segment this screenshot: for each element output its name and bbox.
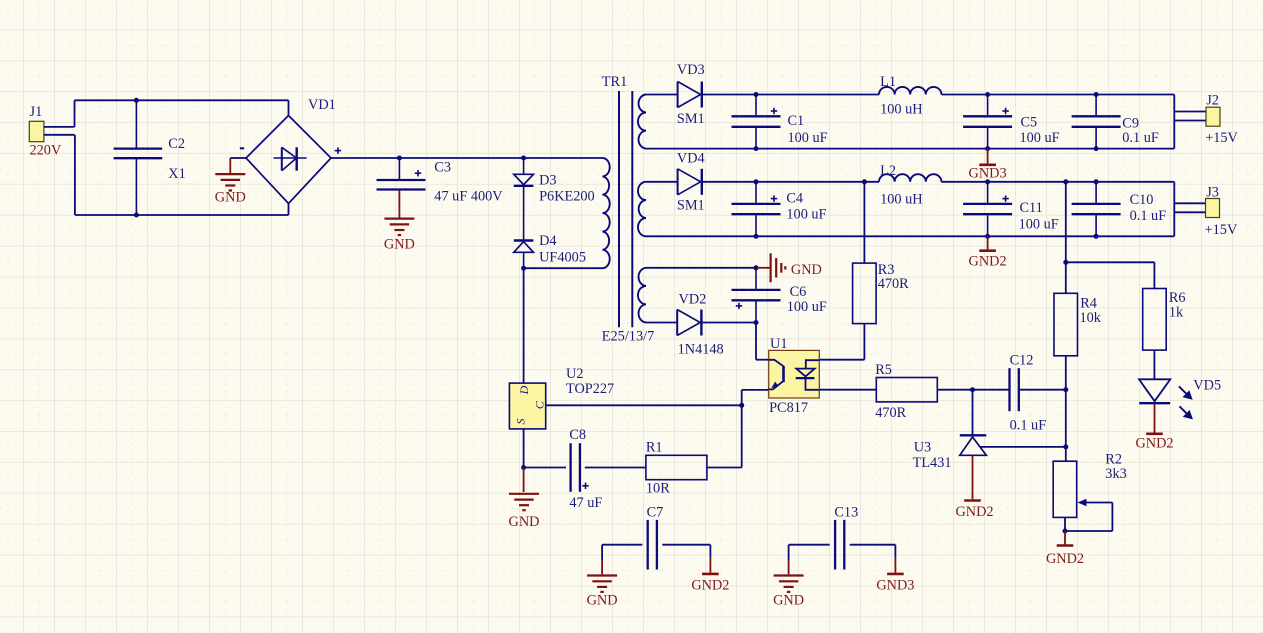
- svg-text:C10: C10: [1130, 192, 1154, 208]
- svg-text:VD4: VD4: [677, 150, 705, 166]
- svg-text:C6: C6: [790, 284, 807, 300]
- svg-text:220V: 220V: [30, 142, 62, 158]
- svg-text:C13: C13: [834, 505, 858, 521]
- svg-text:470R: 470R: [875, 405, 906, 421]
- svg-text:X1: X1: [168, 166, 185, 182]
- svg-text:GND2: GND2: [955, 504, 993, 520]
- svg-text:U2: U2: [566, 366, 583, 382]
- svg-text:J2: J2: [1206, 93, 1219, 109]
- svg-text:PC817: PC817: [769, 400, 808, 416]
- svg-text:100 uF: 100 uF: [788, 130, 828, 146]
- svg-text:C4: C4: [786, 190, 803, 206]
- svg-text:C8: C8: [569, 427, 586, 443]
- svg-text:GND: GND: [791, 262, 822, 278]
- svg-text:0.1 uF: 0.1 uF: [1010, 418, 1047, 434]
- svg-text:L2: L2: [880, 163, 896, 179]
- svg-text:47 uF 400V: 47 uF 400V: [434, 189, 503, 205]
- svg-text:GND: GND: [509, 514, 540, 530]
- svg-text:10R: 10R: [646, 481, 670, 497]
- svg-text:J3: J3: [1206, 185, 1219, 201]
- svg-text:GND2: GND2: [1046, 551, 1084, 567]
- svg-text:GND: GND: [587, 593, 618, 609]
- svg-text:GND: GND: [773, 593, 804, 609]
- svg-text:L1: L1: [880, 74, 896, 90]
- svg-text:VD5: VD5: [1193, 378, 1221, 394]
- svg-text:D3: D3: [539, 173, 556, 189]
- svg-text:C12: C12: [1010, 352, 1034, 368]
- svg-text:1k: 1k: [1169, 305, 1184, 321]
- svg-text:0.1 uF: 0.1 uF: [1130, 208, 1167, 224]
- svg-text:P6KE200: P6KE200: [539, 189, 595, 205]
- svg-text:R1: R1: [646, 440, 663, 456]
- svg-text:GND: GND: [384, 236, 415, 252]
- svg-text:U1: U1: [770, 336, 787, 352]
- svg-text:100 uF: 100 uF: [787, 299, 827, 315]
- svg-text:47 uF: 47 uF: [569, 495, 602, 511]
- svg-text:100 uF: 100 uF: [786, 207, 826, 223]
- svg-text:SM1: SM1: [677, 198, 705, 214]
- svg-text:GND: GND: [215, 189, 246, 205]
- svg-text:TL431: TL431: [913, 455, 952, 471]
- svg-text:D: D: [517, 385, 531, 395]
- svg-text:TOP227: TOP227: [566, 381, 614, 397]
- svg-text:D4: D4: [539, 233, 556, 249]
- svg-text:100 uF: 100 uF: [1020, 130, 1060, 146]
- svg-text:C: C: [532, 400, 546, 409]
- svg-text:VD1: VD1: [308, 97, 336, 113]
- svg-text:1N4148: 1N4148: [678, 342, 724, 358]
- svg-text:TR1: TR1: [602, 74, 627, 90]
- svg-text:VD3: VD3: [677, 62, 705, 78]
- svg-text:+15V: +15V: [1205, 130, 1238, 146]
- svg-text:R6: R6: [1169, 290, 1186, 306]
- svg-text:C11: C11: [1020, 200, 1043, 216]
- svg-text:R5: R5: [875, 362, 892, 378]
- svg-text:C5: C5: [1021, 114, 1038, 130]
- svg-text:E25/13/7: E25/13/7: [602, 329, 654, 345]
- svg-text:C7: C7: [647, 505, 664, 521]
- svg-text:3k3: 3k3: [1105, 466, 1126, 482]
- svg-text:VD2: VD2: [679, 291, 707, 307]
- svg-text:C3: C3: [434, 159, 451, 175]
- svg-text:100 uH: 100 uH: [880, 102, 923, 118]
- svg-text:100 uH: 100 uH: [880, 191, 923, 207]
- svg-text:GND3: GND3: [969, 166, 1007, 182]
- svg-text:0.1 uF: 0.1 uF: [1122, 130, 1159, 146]
- svg-text:C1: C1: [788, 113, 805, 129]
- svg-text:+15V: +15V: [1205, 222, 1238, 238]
- svg-text:GND2: GND2: [1135, 436, 1173, 452]
- svg-text:U3: U3: [914, 440, 931, 456]
- svg-text:S: S: [513, 419, 527, 425]
- svg-text:470R: 470R: [878, 276, 909, 292]
- svg-text:10k: 10k: [1080, 310, 1102, 326]
- svg-text:GND2: GND2: [691, 578, 729, 594]
- svg-text:GND3: GND3: [876, 578, 914, 594]
- svg-text:UF4005: UF4005: [539, 250, 586, 266]
- svg-text:100 uF: 100 uF: [1019, 216, 1059, 232]
- svg-text:SM1: SM1: [677, 111, 705, 127]
- svg-text:C2: C2: [168, 136, 185, 152]
- svg-text:GND2: GND2: [969, 253, 1007, 269]
- svg-text:J1: J1: [30, 104, 43, 120]
